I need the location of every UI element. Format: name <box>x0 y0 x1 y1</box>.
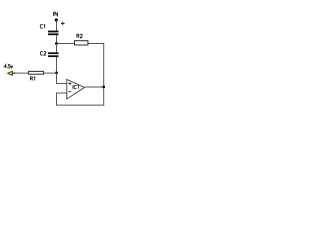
inverting input - mark <box>68 91 71 93</box>
wire op-amp output to rail <box>85 86 105 88</box>
C1 bottom plate <box>48 33 59 35</box>
label C1 <box>40 25 44 29</box>
resistor R1 <box>29 71 44 74</box>
op-amp IC1 <box>67 79 85 99</box>
node A junction <box>55 42 58 45</box>
power flag arrow head <box>8 71 13 75</box>
op-amp IC1 triangle body <box>67 79 85 99</box>
label IN (node IN) <box>54 12 58 16</box>
node B junction <box>55 72 58 75</box>
label 4.5v <box>4 64 12 68</box>
wire inverting input to bottom rail <box>57 93 68 105</box>
output junction <box>102 86 105 89</box>
wire node A to C2 <box>56 44 58 53</box>
right rail wire <box>103 44 105 106</box>
bottom rail wire <box>56 104 104 106</box>
resistor R2 <box>75 41 88 45</box>
wire node B to noninverting input <box>57 73 68 84</box>
terminal dot of node IN <box>55 18 58 21</box>
wire R1 to node B <box>44 72 57 74</box>
wire arrow to R1 <box>15 72 29 74</box>
wire C2 to node B <box>56 57 58 73</box>
noninverting input + mark <box>68 82 71 85</box>
capacitor C2 <box>48 52 59 57</box>
polarity + of C1 <box>61 22 65 26</box>
label IC1 <box>73 85 79 89</box>
wire C1 to node A <box>56 35 58 44</box>
wire IN to C1 <box>56 20 58 31</box>
label R1 <box>30 77 34 81</box>
label R2 <box>77 34 83 38</box>
label C2 <box>40 52 45 56</box>
wire node A to right rail (through R2) <box>57 43 105 45</box>
power flag 4.5v <box>8 71 16 75</box>
power flag pin <box>12 72 15 74</box>
C2 top plate <box>48 52 59 54</box>
capacitor C1 <box>48 31 59 36</box>
C1 top plate <box>48 31 59 33</box>
C2 bottom plate <box>48 55 59 57</box>
